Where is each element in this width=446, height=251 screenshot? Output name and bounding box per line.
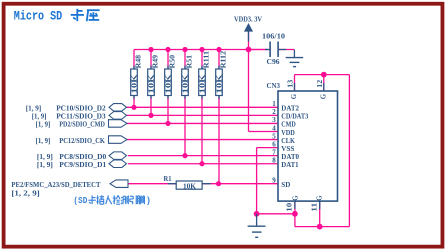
svg-text:Micro SD: Micro SD: [14, 8, 62, 23]
svg-text:R112: R112: [219, 50, 227, 68]
svg-text:11: 11: [311, 202, 318, 212]
svg-text:R1: R1: [164, 175, 172, 183]
svg-text:6: 6: [272, 140, 276, 148]
svg-text:SD: SD: [281, 180, 291, 189]
svg-text:CN3: CN3: [267, 82, 281, 90]
svg-text:10: 10: [286, 202, 293, 212]
svg-text:PC12/SDIO_CK: PC12/SDIO_CK: [59, 136, 105, 145]
svg-text:(SD: (SD: [73, 196, 87, 206]
svg-text:7: 7: [272, 148, 276, 156]
svg-text:VDD3. 3V: VDD3. 3V: [234, 16, 263, 24]
svg-text:10K: 10K: [198, 74, 207, 93]
svg-text:10K: 10K: [183, 182, 196, 190]
svg-text:): ): [146, 196, 151, 206]
svg-text:R48: R48: [134, 54, 142, 68]
svg-text:5: 5: [272, 132, 276, 140]
svg-text:C96: C96: [267, 58, 280, 66]
svg-text:[1, 9]: [1, 9]: [37, 160, 53, 169]
svg-text:R50: R50: [168, 54, 176, 68]
svg-text:10K: 10K: [147, 74, 156, 93]
svg-text:10K: 10K: [215, 74, 224, 93]
svg-text:10K: 10K: [164, 74, 173, 93]
svg-text:9: 9: [272, 177, 276, 185]
svg-text:2: 2: [272, 108, 276, 116]
svg-text:3: 3: [272, 116, 276, 124]
svg-text:[1, 9]: [1, 9]: [36, 136, 51, 145]
svg-text:[1, 2, 9]: [1, 2, 9]: [11, 188, 39, 197]
svg-text:DAT1: DAT1: [281, 160, 299, 169]
svg-text:4: 4: [272, 124, 276, 132]
svg-text:[1, 9]: [1, 9]: [36, 120, 51, 129]
svg-text:R111: R111: [202, 50, 210, 68]
svg-text:106/10: 106/10: [262, 33, 285, 41]
svg-text:PC9/SDIO_D1: PC9/SDIO_D1: [59, 160, 106, 169]
svg-text:G: G: [292, 195, 299, 201]
svg-text:R51: R51: [185, 54, 193, 68]
svg-text:12: 12: [317, 79, 324, 88]
svg-text:13: 13: [288, 79, 295, 88]
svg-text:10K: 10K: [130, 74, 139, 93]
svg-text:1: 1: [272, 100, 276, 108]
svg-text:G: G: [317, 195, 324, 201]
svg-text:G: G: [291, 93, 298, 99]
svg-text:PD2/SDIO_CMD: PD2/SDIO_CMD: [59, 120, 105, 129]
svg-text:10K: 10K: [181, 74, 190, 93]
svg-text:R49: R49: [151, 54, 159, 68]
svg-text:G: G: [321, 93, 328, 99]
svg-text:8: 8: [272, 157, 276, 165]
